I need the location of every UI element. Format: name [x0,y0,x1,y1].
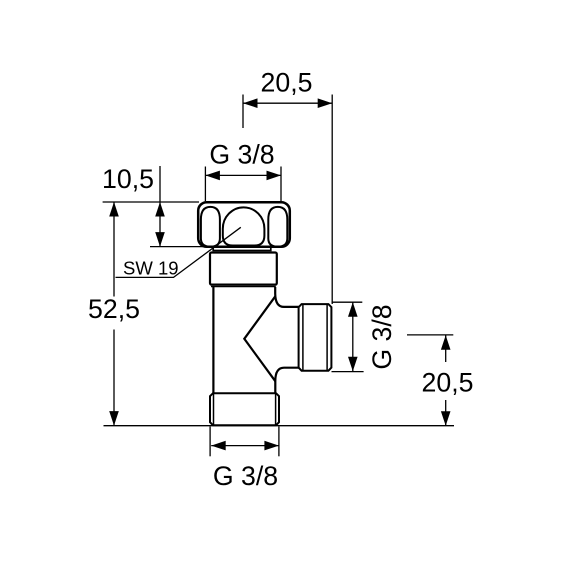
svg-text:G 3/8: G 3/8 [213,461,278,491]
svg-text:G 3/8: G 3/8 [209,139,274,169]
svg-text:G 3/8: G 3/8 [367,304,397,369]
svg-text:20,5: 20,5 [261,68,313,98]
svg-text:SW 19: SW 19 [123,258,179,279]
svg-text:52,5: 52,5 [88,294,140,324]
svg-text:10,5: 10,5 [102,164,154,194]
svg-text:20,5: 20,5 [422,367,474,397]
